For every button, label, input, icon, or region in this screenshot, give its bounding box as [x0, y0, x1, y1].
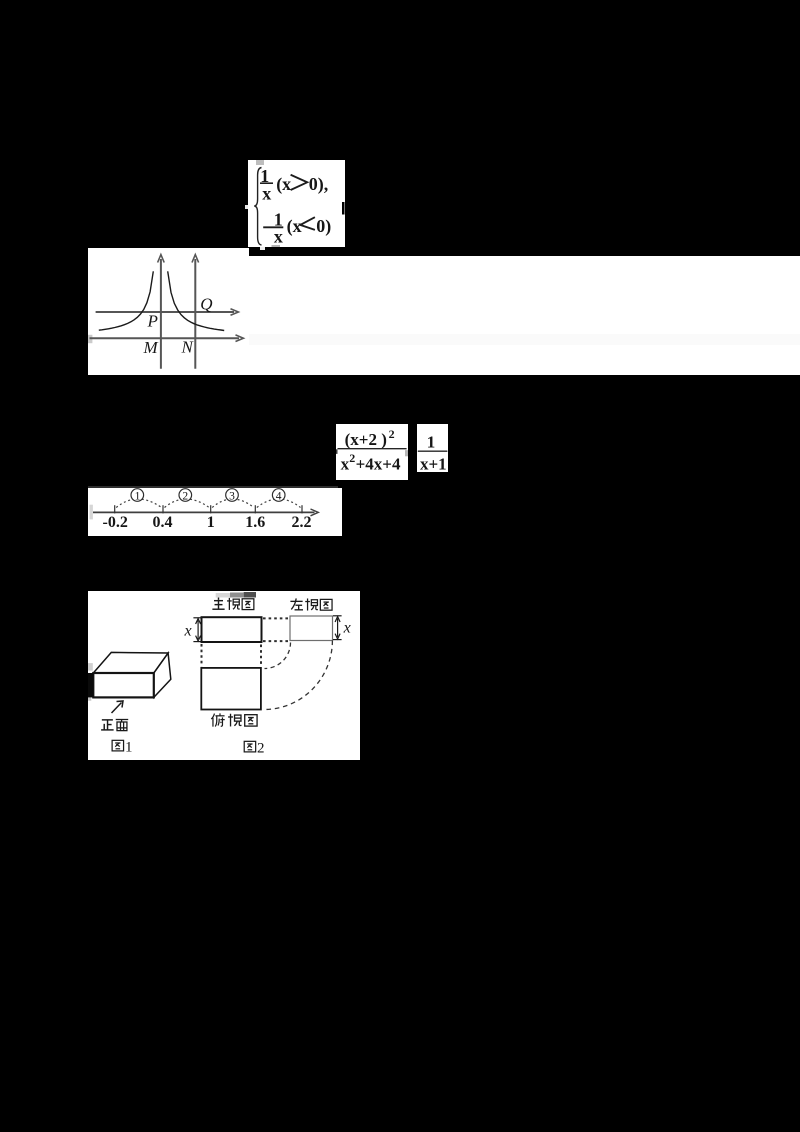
svg-text:1: 1 [135, 490, 141, 502]
svg-text:1: 1 [426, 433, 435, 452]
svg-text:(x: (x [276, 173, 291, 194]
dashed arc 1 [116, 499, 161, 508]
top view rectangle [201, 667, 261, 709]
number line panel [88, 488, 342, 536]
ticks [115, 505, 302, 513]
minus sign and bar line 2 [263, 226, 283, 228]
dashed arc 2 [165, 499, 210, 508]
cuboid 图1: top face [93, 652, 168, 673]
left view rectangle [290, 616, 333, 641]
svg-text:1.6: 1.6 [245, 514, 265, 531]
svg-text:1: 1 [207, 514, 215, 531]
svg-text:(x: (x [287, 216, 302, 237]
svg-text:-0.2: -0.2 [103, 514, 128, 531]
circled 4 [272, 489, 285, 502]
fraction bar [417, 450, 447, 452]
big dashed arc [264, 640, 332, 709]
svg-text:N: N [181, 337, 195, 356]
graph white panel [88, 248, 249, 376]
left edge dark tick [336, 449, 338, 454]
tick value labels [103, 514, 312, 531]
hyperbola curve left branch [99, 271, 154, 330]
svg-text:0),: 0), [309, 173, 329, 194]
main number line with arrow [93, 511, 315, 513]
white tab below formula box [260, 247, 266, 251]
gray scan square at left [90, 505, 93, 520]
svg-text:x: x [274, 226, 283, 246]
svg-text:3: 3 [229, 490, 235, 502]
正面 label [101, 719, 114, 729]
gray square right of bar [405, 450, 408, 456]
dotted projection lines main->left view [263, 618, 289, 641]
faint gray band in strip [249, 334, 800, 345]
gray scan square at left end of lower axis [88, 334, 92, 342]
black bar left side of cuboid [88, 673, 93, 697]
dashed arc 4 [257, 499, 301, 508]
svg-text:1: 1 [125, 739, 133, 755]
faint scan remnant above number line [88, 486, 338, 489]
x dimension arrow left (main view) [193, 617, 202, 641]
hyperbola curve right branch [168, 271, 225, 330]
black notch right edge [342, 202, 345, 215]
svg-text:2: 2 [389, 427, 395, 441]
左视图 label [290, 598, 303, 609]
dotted projection lines main->top view [202, 644, 262, 667]
y-axis 2 (right vertical) [192, 254, 199, 368]
x-axis 1 (upper horizontal) [96, 308, 239, 315]
fraction 1/(x+1) [417, 424, 448, 472]
fraction bar [338, 448, 407, 450]
circled 2 [179, 489, 192, 502]
scan gray marks [216, 593, 230, 598]
wide white text strip [249, 256, 800, 375]
svg-text:+4x+4: +4x+4 [356, 455, 401, 474]
svg-text:x: x [343, 619, 351, 636]
formula box: piecewise function y = {1/x (x>0), -1/x (x<0)} [248, 160, 345, 247]
arrow to front face [112, 702, 122, 713]
svg-text:x: x [184, 622, 192, 639]
主视图 label [212, 597, 224, 609]
x-axis 2 (lower horizontal) [90, 334, 244, 341]
circled 3 [226, 489, 239, 502]
svg-text:2: 2 [257, 740, 265, 756]
y-axis 1 (left vertical) [158, 254, 165, 368]
main view rectangle [202, 617, 262, 642]
three-view figure panel (图1 / 图2) [88, 591, 360, 760]
svg-text:x: x [262, 183, 271, 203]
x dimension arrow right (left view) [333, 615, 342, 639]
scan artifact gray squares [256, 160, 264, 165]
svg-text:P: P [147, 311, 158, 330]
svg-text:(x+2 ): (x+2 ) [345, 430, 387, 449]
图1 label [112, 740, 123, 751]
small dashed arc [265, 642, 291, 668]
svg-text:2: 2 [349, 451, 355, 465]
svg-text:2.2: 2.2 [292, 514, 312, 531]
fraction (x+2)^2 / (x^2+4x+4) [336, 424, 408, 480]
circled 1 [131, 489, 144, 502]
svg-text:0): 0) [316, 215, 331, 236]
svg-text:0.4: 0.4 [153, 514, 173, 531]
svg-text:4: 4 [276, 490, 282, 502]
cuboid right face [154, 653, 171, 697]
svg-text:2: 2 [182, 490, 188, 502]
left curly brace [254, 167, 261, 245]
dashed arc 3 [212, 499, 254, 508]
图2 label [244, 741, 255, 752]
svg-text:x+1: x+1 [420, 454, 447, 471]
cuboid front face [93, 673, 154, 697]
remnant mark left of formula box [245, 205, 248, 209]
svg-text:M: M [143, 338, 159, 357]
俯视图 label [211, 713, 224, 726]
svg-text:Q: Q [200, 294, 212, 313]
